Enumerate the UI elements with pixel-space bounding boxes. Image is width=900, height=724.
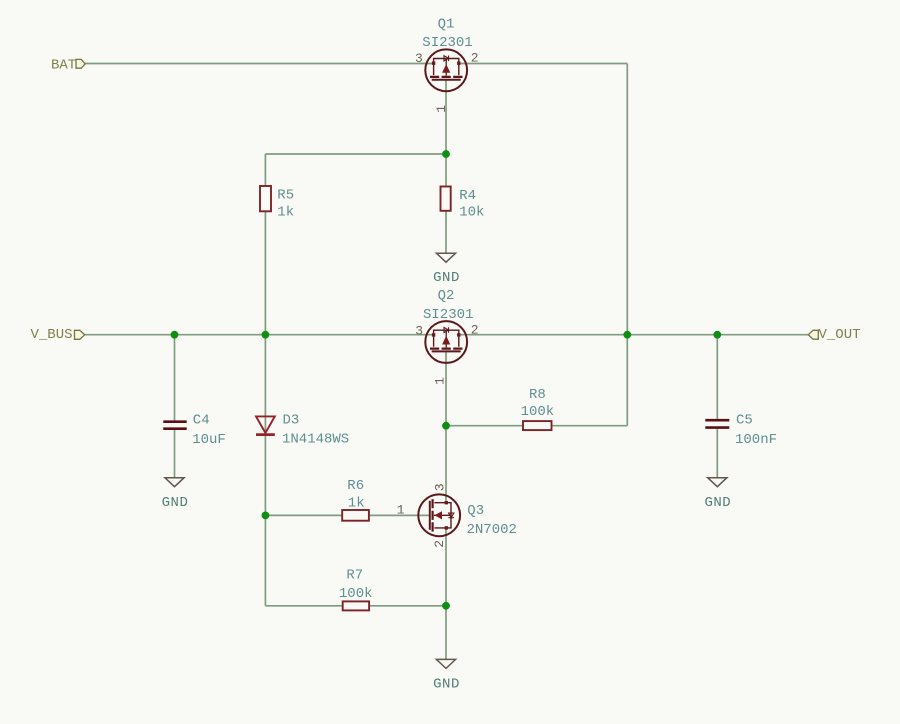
- svg-text:R7: R7: [346, 568, 363, 584]
- svg-text:BAT: BAT: [51, 58, 76, 74]
- svg-text:1: 1: [432, 377, 447, 385]
- svg-text:100nF: 100nF: [735, 432, 777, 448]
- svg-text:V_BUS: V_BUS: [31, 327, 73, 343]
- svg-text:10k: 10k: [459, 205, 484, 221]
- svg-text:2: 2: [432, 540, 447, 548]
- svg-text:SI2301: SI2301: [422, 35, 472, 51]
- svg-text:2N7002: 2N7002: [467, 522, 517, 538]
- svg-text:1N4148WS: 1N4148WS: [282, 432, 349, 448]
- svg-text:3: 3: [415, 323, 423, 338]
- svg-text:2: 2: [471, 50, 479, 65]
- svg-text:GND: GND: [162, 495, 189, 511]
- svg-text:2: 2: [471, 322, 479, 337]
- svg-text:GND: GND: [433, 676, 460, 692]
- svg-text:C4: C4: [193, 412, 210, 428]
- svg-text:Q3: Q3: [467, 503, 484, 519]
- svg-text:1k: 1k: [348, 496, 365, 512]
- svg-text:C5: C5: [736, 412, 753, 428]
- svg-text:Q1: Q1: [438, 16, 455, 32]
- svg-text:1: 1: [397, 502, 405, 517]
- svg-text:V_OUT: V_OUT: [819, 327, 861, 343]
- svg-text:R4: R4: [459, 188, 476, 204]
- svg-text:1: 1: [434, 105, 449, 113]
- svg-text:100k: 100k: [521, 404, 555, 420]
- svg-text:100k: 100k: [339, 586, 373, 602]
- svg-text:R6: R6: [347, 478, 364, 494]
- svg-text:D3: D3: [283, 412, 300, 428]
- svg-text:10uF: 10uF: [192, 432, 226, 448]
- svg-text:GND: GND: [704, 495, 731, 511]
- svg-text:3: 3: [415, 51, 423, 66]
- svg-text:R8: R8: [529, 387, 546, 403]
- svg-text:1k: 1k: [277, 204, 294, 220]
- svg-text:R5: R5: [277, 187, 294, 203]
- svg-text:SI2301: SI2301: [423, 307, 473, 323]
- svg-text:GND: GND: [433, 270, 460, 286]
- svg-text:3: 3: [432, 483, 447, 491]
- svg-text:Q2: Q2: [438, 288, 455, 304]
